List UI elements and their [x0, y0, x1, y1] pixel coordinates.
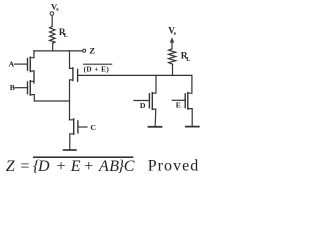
- svg-text:{D+E+AB}C: {D+E+AB}C: [33, 158, 135, 175]
- svg-text:Proved: Proved: [148, 158, 200, 175]
- svg-text:D: D: [140, 101, 146, 110]
- svg-text:=: =: [20, 158, 29, 175]
- svg-text:Z: Z: [6, 158, 16, 175]
- svg-text:Z: Z: [89, 46, 95, 55]
- svg-text:A: A: [9, 60, 15, 69]
- svg-text:(D + E): (D + E): [84, 66, 110, 74]
- svg-text:C: C: [90, 123, 96, 132]
- svg-text:L: L: [186, 57, 190, 63]
- svg-text:E: E: [176, 101, 181, 110]
- svg-text:B: B: [10, 83, 15, 92]
- svg-text:L: L: [64, 33, 68, 39]
